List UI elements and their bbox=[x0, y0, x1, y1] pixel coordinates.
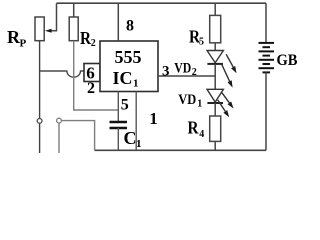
svg-text:IC: IC bbox=[113, 68, 133, 88]
LED VD1 light arrow 1 bbox=[222, 93, 229, 103]
LED VD1 light arrow 2 bbox=[218, 100, 226, 112]
svg-text:1: 1 bbox=[197, 99, 202, 110]
svg-text:VD: VD bbox=[174, 60, 191, 76]
svg-text:8: 8 bbox=[126, 18, 134, 35]
wire pin 5 from IC bottom to C1 bbox=[117, 92, 119, 123]
wire right probe to ground rail bbox=[61, 121, 94, 151]
op-amp IC1 555 timer box bbox=[100, 41, 158, 92]
LED VD1 cathode bar bbox=[207, 102, 223, 104]
node right probe terminal circle bbox=[57, 118, 62, 123]
wire C1 bottom lead to ground rail bbox=[117, 128, 119, 150]
svg-text:1: 1 bbox=[133, 78, 139, 90]
wire R5 to VD2 bbox=[214, 43, 216, 51]
wire VD2 to VD1 bbox=[214, 64, 216, 89]
pin box 6 on IC left edge bbox=[84, 64, 100, 82]
wire pin 1 from IC bottom to ground rail bbox=[135, 92, 137, 151]
wire pin 3 output to LED junction bbox=[158, 75, 215, 77]
resistor R2 body bbox=[69, 17, 78, 41]
potentiometer RP body bbox=[35, 17, 44, 41]
svg-text:VD: VD bbox=[178, 92, 196, 108]
svg-text:R: R bbox=[188, 118, 200, 138]
svg-text:2: 2 bbox=[91, 38, 96, 49]
wire bottom ground rail bbox=[95, 149, 266, 151]
svg-text:5: 5 bbox=[199, 36, 204, 47]
wire R2 bottom lead down and right to C1 top node bbox=[74, 41, 119, 110]
LED VD2 cathode bar bbox=[207, 63, 223, 65]
resistor R2 top lead bbox=[73, 3, 75, 17]
LED VD2 light arrow 2 bbox=[221, 64, 229, 82]
svg-text:3: 3 bbox=[162, 64, 170, 80]
svg-text:1: 1 bbox=[136, 138, 142, 150]
wire VD1 to R4 bbox=[214, 103, 216, 116]
node A wire to pin 6 with hop over R2 lead bbox=[40, 71, 84, 77]
wire RP wiper from top rail bbox=[51, 3, 57, 31]
capacitor C1 bottom plate bbox=[110, 127, 128, 129]
svg-text:555: 555 bbox=[115, 47, 142, 67]
wire pin 8 from top rail to IC top bbox=[117, 3, 119, 41]
svg-text:C: C bbox=[124, 128, 137, 148]
svg-text:2: 2 bbox=[87, 80, 95, 97]
svg-text:5: 5 bbox=[121, 97, 129, 114]
battery GB cell plates bbox=[259, 42, 275, 44]
LED VD2 light arrow 1 bbox=[226, 54, 233, 67]
svg-text:P: P bbox=[20, 38, 27, 50]
resistor R5 body bbox=[210, 15, 221, 42]
wire RP bottom lead down to left probe bbox=[39, 41, 41, 153]
wire top supply rail bbox=[57, 2, 267, 4]
LED VD2 triangle bbox=[207, 51, 223, 63]
wire R4 bottom lead to ground rail bbox=[214, 141, 216, 150]
potentiometer RP wiper arrowhead bbox=[45, 29, 52, 33]
svg-text:1: 1 bbox=[149, 109, 158, 128]
wire right probe electrode hanging bbox=[58, 123, 60, 153]
LED VD1 triangle bbox=[207, 89, 223, 102]
node left probe terminal circle bbox=[37, 119, 42, 124]
svg-text:GB: GB bbox=[277, 52, 298, 69]
svg-text:4: 4 bbox=[199, 129, 204, 140]
capacitor C1 top plate bbox=[110, 121, 128, 123]
wire R5 top lead from rail bbox=[214, 3, 216, 15]
wire battery top lead bbox=[265, 3, 267, 43]
wire battery bottom lead to ground rail bbox=[265, 72, 267, 150]
svg-text:2: 2 bbox=[192, 67, 197, 78]
resistor R4 body bbox=[210, 116, 221, 141]
